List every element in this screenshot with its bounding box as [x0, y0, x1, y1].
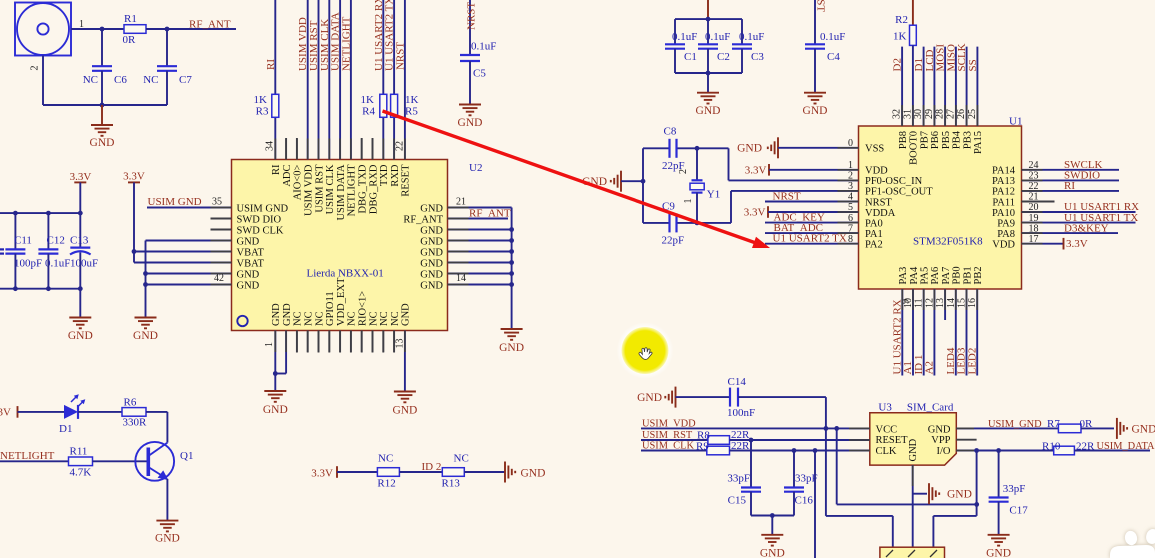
junction C17 top — [996, 448, 1001, 453]
junction gnd row8 — [143, 282, 148, 287]
resistor R3 — [254, 94, 279, 118]
net label RF_ANT right — [469, 208, 511, 220]
junction C12 top — [46, 211, 51, 216]
svg-text:C3: C3 — [751, 51, 764, 63]
wire C1 bottom — [674, 49, 676, 73]
wire join to ground — [771, 516, 773, 535]
svg-text:R3: R3 — [256, 106, 269, 118]
svg-text:GND: GND — [237, 236, 260, 247]
node junction at C6 top — [100, 27, 105, 32]
net label U1 USART2 TX vertical — [384, 0, 396, 71]
svg-text:VSS: VSS — [865, 144, 884, 155]
svg-text:C1: C1 — [684, 51, 697, 63]
svg-text:PA7: PA7 — [941, 267, 952, 285]
ground left of C14 — [637, 387, 675, 408]
crystal Y1 — [678, 169, 720, 204]
svg-text:GND: GND — [737, 143, 762, 155]
svg-text:GND: GND — [420, 203, 443, 214]
net label RI vertical — [265, 59, 277, 70]
svg-text:NC: NC — [347, 311, 358, 326]
svg-text:GND: GND — [803, 105, 828, 117]
junction VDD branch A — [824, 426, 829, 431]
svg-text:0.1uF: 0.1uF — [705, 31, 730, 43]
resistor R4 — [361, 94, 387, 118]
U3 pin stub VPP — [956, 439, 976, 441]
svg-text:C6: C6 — [114, 74, 127, 86]
wire cap bank bottom rail — [0, 288, 80, 290]
svg-text:32: 32 — [892, 109, 903, 119]
svg-text:USIM DATA: USIM DATA — [336, 164, 347, 220]
svg-text:R13: R13 — [442, 478, 461, 490]
svg-text:SWD CLK: SWD CLK — [237, 225, 284, 236]
power 3.3V VDD — [745, 164, 769, 177]
wire LED to R6 — [78, 411, 122, 413]
wire R2 to U1 — [912, 45, 914, 126]
wire R13 to ground — [464, 471, 505, 473]
svg-text:R5: R5 — [405, 106, 418, 118]
wire CLK branch down — [814, 451, 816, 558]
wire R10 to USIM DATA — [1074, 450, 1150, 452]
wire C15 bottom — [750, 492, 752, 516]
capacitor C12 — [38, 235, 70, 270]
wire 3.3V to LED — [18, 411, 65, 413]
svg-text:D2: D2 — [892, 58, 904, 71]
svg-text:STM32F051K8: STM32F051K8 — [913, 236, 983, 248]
ground U2 bottom right — [392, 392, 417, 417]
wire C17 drop — [998, 451, 1000, 498]
svg-text:3.3V: 3.3V — [123, 171, 145, 183]
ground right of U3 pin — [929, 483, 972, 504]
svg-text:PF0-OSC_IN: PF0-OSC_IN — [865, 176, 923, 187]
ground right of R7 — [1117, 418, 1155, 439]
net label LED4 vertical — [945, 347, 957, 374]
resistor R12 — [377, 468, 399, 490]
pin number 1 — [264, 342, 275, 347]
svg-text:1K: 1K — [254, 94, 268, 106]
wire C16 drop — [793, 451, 795, 488]
wire U1 bottom col 14 — [955, 289, 957, 376]
svg-text:R2: R2 — [895, 14, 908, 26]
svg-text:PA14: PA14 — [992, 166, 1016, 177]
svg-text:AIO<0>: AIO<0> — [293, 164, 304, 200]
svg-text:22: 22 — [394, 141, 405, 151]
ground U2 left — [133, 318, 158, 343]
svg-text:RIO<1>: RIO<1> — [358, 291, 369, 326]
capacitor C5 — [460, 41, 496, 80]
svg-text:PB5: PB5 — [941, 131, 952, 149]
svg-text:PA15: PA15 — [973, 131, 984, 154]
svg-text:RF_ANT: RF_ANT — [403, 214, 443, 225]
svg-text:NC: NC — [83, 74, 98, 86]
net label LCD vertical — [924, 49, 936, 71]
svg-text:33pF: 33pF — [727, 473, 750, 485]
wire C12 top — [47, 213, 49, 249]
svg-text:3.3V: 3.3V — [0, 407, 11, 419]
junction right gnd row4 — [509, 238, 514, 243]
wire VDDA — [768, 211, 859, 213]
svg-text:USIM GND: USIM GND — [237, 203, 289, 214]
resistor R11 — [69, 446, 93, 479]
connector U3 SIM Card — [870, 413, 957, 465]
junction CLK branch — [813, 448, 818, 453]
svg-text:RESET: RESET — [876, 435, 909, 446]
designator U1 — [1009, 116, 1022, 128]
wire GND right row8 — [448, 284, 512, 286]
net label D2 vertical — [892, 58, 904, 71]
svg-text:0.1uF: 0.1uF — [471, 41, 496, 53]
svg-text:C13: C13 — [70, 235, 89, 247]
wire C13 bottom — [79, 253, 81, 289]
svg-text:26: 26 — [956, 109, 967, 119]
svg-text:ID 2: ID 2 — [422, 461, 442, 473]
svg-text:1K: 1K — [405, 94, 419, 106]
ground right of R13 — [505, 462, 545, 483]
wire U1 bottom col 16 — [976, 289, 978, 376]
U2 pin stub SWD DIO — [211, 218, 232, 220]
svg-text:CLK: CLK — [876, 446, 897, 457]
svg-text:C14: C14 — [728, 376, 747, 388]
capacitor C8 — [662, 126, 685, 173]
svg-text:USIM_DATA: USIM_DATA — [1097, 441, 1155, 452]
svg-text:R1: R1 — [124, 13, 137, 25]
net label SWCLK — [1064, 159, 1103, 171]
svg-text:GPIO11: GPIO11 — [325, 291, 336, 326]
wire USIM GND to U2 — [147, 207, 232, 209]
wire C7 bottom — [166, 71, 168, 105]
net label LED2 vertical — [966, 348, 978, 375]
net label NETLIGHT vertical — [340, 16, 352, 71]
wire VBAT row1 — [134, 251, 232, 253]
wire NETLIGHT column — [350, 0, 352, 160]
svg-text:NRST: NRST — [815, 0, 827, 12]
svg-text:A2: A2 — [924, 361, 936, 374]
svg-text:VDD_EXT: VDD_EXT — [336, 277, 347, 326]
svg-text:PA3: PA3 — [898, 267, 909, 285]
capacitor C11 — [5, 235, 42, 270]
wire VDD branch B across — [837, 428, 977, 504]
svg-text:SS: SS — [967, 59, 979, 71]
svg-text:I/O: I/O — [937, 446, 951, 457]
wire 3.3V down to VBAT — [133, 182, 135, 262]
svg-text:PB4: PB4 — [952, 130, 963, 149]
wire VBAT row2 — [134, 262, 232, 264]
svg-text:R4: R4 — [362, 106, 375, 118]
wire PF0 to crystal — [729, 148, 859, 180]
capacitor C13 polarized — [70, 235, 98, 270]
svg-text:C16: C16 — [795, 495, 814, 507]
svg-text:100pF: 100pF — [14, 258, 42, 270]
net label LED3 vertical — [956, 347, 968, 374]
capacitor edge partial — [0, 249, 4, 269]
svg-text:R12: R12 — [377, 478, 395, 490]
wire crystal bottom rail — [643, 222, 731, 224]
power 3.3V LED — [0, 406, 18, 418]
wire U1 right row 4 — [1022, 201, 1055, 203]
pin number 35 — [212, 197, 222, 208]
resistor R7 — [1047, 418, 1093, 433]
svg-text:NC: NC — [314, 311, 325, 326]
wire C5 to ground — [469, 61, 471, 105]
wire power feed above C2 — [707, 0, 709, 19]
svg-text:13: 13 — [395, 339, 406, 349]
svg-text:1K: 1K — [361, 94, 375, 106]
wire NRST to C5 — [469, 0, 471, 55]
svg-text:2: 2 — [678, 169, 689, 174]
svg-text:Y1: Y1 — [707, 189, 720, 201]
ground below C13 — [68, 318, 93, 343]
svg-text:1K: 1K — [893, 31, 907, 43]
wire pin2 to pin1 join — [275, 373, 286, 375]
svg-text:NC: NC — [454, 453, 469, 465]
svg-text:PA6: PA6 — [930, 267, 941, 285]
antenna pin 2 label — [30, 66, 41, 71]
pin number 13 — [395, 339, 406, 349]
label NC R12 — [378, 453, 393, 465]
net label NRST vertical — [394, 42, 406, 70]
wire C2 bottom — [707, 49, 709, 73]
net label ID 1 vertical — [913, 355, 925, 375]
wire antenna pin1 to R1 node — [71, 28, 124, 30]
wire U3 gnd to symbol — [913, 493, 927, 495]
svg-text:100uF: 100uF — [70, 258, 98, 270]
wire GND row7 — [146, 273, 232, 275]
svg-text:Q1: Q1 — [180, 450, 193, 462]
net label ADC KEY — [774, 212, 825, 224]
svg-text:DBG_TXD: DBG_TXD — [358, 164, 369, 213]
wire U3 I/O row — [956, 450, 1053, 452]
svg-text:USIM RST: USIM RST — [314, 164, 325, 213]
svg-text:NC: NC — [390, 311, 401, 326]
svg-text:RI: RI — [265, 59, 277, 70]
wire GND right row5 — [448, 251, 512, 253]
svg-text:PF1-OSC_OUT: PF1-OSC_OUT — [865, 187, 933, 198]
svg-text:GND: GND — [133, 330, 158, 342]
wire C16 bottom — [793, 492, 795, 516]
svg-text:PA5: PA5 — [920, 267, 931, 285]
label NC R13 — [454, 453, 469, 465]
svg-text:PA8: PA8 — [997, 229, 1015, 240]
net label RI — [1064, 180, 1075, 192]
net label NRST U1 — [773, 191, 801, 203]
wire USIM CLK to R9 — [641, 450, 707, 452]
ground Q1 — [155, 521, 180, 545]
wire Y1 bottom — [696, 193, 698, 223]
svg-text:NRST: NRST — [394, 42, 406, 70]
wire Y1 top — [696, 148, 698, 180]
wire RI column — [274, 0, 276, 160]
svg-text:GND: GND — [521, 468, 546, 480]
svg-text:3.3V: 3.3V — [311, 468, 333, 480]
svg-text:GND: GND — [68, 330, 93, 342]
pin number 22 — [394, 141, 405, 151]
svg-text:PA2: PA2 — [865, 240, 883, 251]
junction IO-branch cross — [974, 502, 979, 507]
svg-text:GND: GND — [908, 438, 919, 461]
wire MISO column — [955, 47, 957, 126]
net label USIM DATA vertical — [330, 12, 342, 71]
svg-text:PB3: PB3 — [962, 131, 973, 149]
svg-text:RI: RI — [271, 164, 282, 175]
svg-text:28: 28 — [935, 109, 946, 119]
svg-text:0.1uF: 0.1uF — [672, 31, 697, 43]
wire LCD column — [933, 47, 935, 126]
U2 bottom pin stubs — [297, 331, 394, 353]
svg-text:42: 42 — [214, 273, 224, 284]
designator U3 — [878, 402, 892, 414]
wire C15 C16 join — [751, 515, 794, 517]
wire USIM RST to R8 — [641, 439, 708, 441]
junction C15 top — [749, 438, 754, 443]
net label USIM CLK vertical — [319, 19, 331, 71]
net label A1 vertical — [902, 361, 914, 374]
wire RESET column — [404, 0, 406, 160]
pin number 21 — [456, 197, 466, 208]
U1 bottom pin numbers — [901, 298, 979, 308]
pin number 42 — [214, 273, 224, 284]
svg-text:VDD: VDD — [865, 166, 888, 177]
svg-text:GND: GND — [420, 258, 443, 269]
net label BAT ADC — [774, 222, 824, 234]
wire R1 to RF_ANT — [146, 28, 236, 30]
wire U1 right row 8 — [1022, 243, 1064, 245]
svg-text:C2: C2 — [717, 51, 730, 63]
capacitor C9 — [662, 201, 685, 247]
net label NRST at C4 vertical — [815, 0, 827, 12]
transistor Q1 — [135, 442, 193, 481]
net label USIM DATA — [1097, 441, 1155, 452]
junction right gnd row8 — [509, 282, 514, 287]
svg-text:14: 14 — [456, 273, 466, 284]
svg-text:PA9: PA9 — [997, 218, 1015, 229]
svg-text:GND: GND — [90, 137, 115, 149]
net label SS vertical — [967, 59, 979, 71]
cursor white hand corner — [1110, 528, 1155, 558]
svg-text:RESET: RESET — [401, 164, 412, 197]
svg-text:LED2: LED2 — [966, 348, 978, 375]
ground left of crystal — [582, 171, 643, 192]
cursor highlight — [617, 322, 674, 379]
wire R12 to R13 with ID 2 — [399, 471, 442, 473]
svg-text:GND: GND — [263, 404, 288, 416]
svg-text:GND: GND — [155, 533, 180, 545]
wire GND row4 — [146, 240, 232, 242]
wire crystal top rail — [643, 147, 729, 149]
wire USIM VDD row — [641, 427, 870, 429]
wire C14 to VDD branch — [738, 396, 826, 398]
wire PA2 — [765, 243, 859, 245]
ground below C5 — [458, 105, 483, 130]
wire RXD column — [393, 0, 395, 160]
power 3.3V ID row — [311, 466, 337, 479]
svg-text:PA12: PA12 — [992, 187, 1015, 198]
label SIM Card — [907, 402, 954, 414]
wire GND right row7 — [448, 273, 512, 275]
svg-text:R9: R9 — [696, 441, 709, 453]
junction right gnd row7 — [509, 271, 514, 276]
svg-text:NC: NC — [304, 311, 315, 326]
wire C6 bottom — [101, 71, 103, 105]
wire USIM CLK column — [328, 0, 330, 160]
svg-text:NETLIGHT: NETLIGHT — [347, 164, 358, 216]
wire U1 right row 5 — [1022, 211, 1136, 213]
net label NETLIGHT — [0, 450, 55, 462]
net label SCLK vertical — [956, 43, 968, 71]
wire power feed above R2 — [912, 0, 914, 25]
svg-text:TXD: TXD — [379, 164, 390, 186]
svg-text:C5: C5 — [473, 68, 486, 80]
svg-text:GND: GND — [637, 392, 662, 404]
wire cap bank top rail — [0, 212, 80, 214]
wire R11 to Q1 base — [93, 460, 149, 462]
svg-text:3.3V: 3.3V — [745, 165, 767, 177]
svg-text:GND: GND — [760, 548, 785, 558]
wire C6 top drop — [101, 29, 103, 66]
svg-text:USIM_GND: USIM_GND — [988, 419, 1042, 430]
wire U1 right row 2 — [1022, 179, 1120, 181]
svg-text:C12: C12 — [47, 235, 65, 247]
capacitor C1 — [665, 31, 697, 63]
wire NRST to C4 — [814, 0, 816, 44]
svg-text:C15: C15 — [728, 495, 747, 507]
capacitor C4 — [805, 31, 845, 63]
junction right gnd row6 — [509, 260, 514, 265]
svg-text:GND: GND — [499, 342, 524, 354]
wire NETLIGHT to R11 — [0, 460, 69, 462]
wire down to ground pin1 — [274, 374, 276, 392]
svg-text:RI: RI — [1064, 180, 1075, 192]
wire I/O branch down to SIM socket — [933, 451, 976, 548]
wire PA0 — [765, 222, 859, 224]
ground below C2 — [696, 93, 721, 117]
wire D2 column — [901, 47, 903, 126]
connector SIM socket bottom — [880, 547, 945, 558]
svg-text:R11: R11 — [70, 446, 88, 458]
junction right gnd row5 — [509, 249, 514, 254]
junction C11 top — [13, 211, 18, 216]
svg-text:PB2: PB2 — [973, 266, 984, 284]
net label SWDIO — [1064, 170, 1100, 182]
module U2 Lierda NBXX-01 — [232, 160, 448, 331]
wire U3 GND to R7 — [956, 427, 1058, 429]
svg-text:C11: C11 — [14, 235, 32, 247]
ground below C15 C16 — [760, 535, 785, 558]
svg-text:GND: GND — [271, 303, 282, 326]
svg-text:NC: NC — [293, 311, 304, 326]
wire GND row1 right — [448, 207, 512, 209]
svg-text:U1 USART2 TX: U1 USART2 TX — [773, 233, 847, 245]
svg-text:GND: GND — [928, 424, 951, 435]
svg-text:1: 1 — [683, 199, 694, 204]
svg-text:4.7K: 4.7K — [70, 467, 92, 479]
svg-text:31: 31 — [902, 109, 913, 119]
svg-text:PB0: PB0 — [952, 266, 963, 284]
wire C13 to ground — [79, 289, 81, 318]
svg-text:PA10: PA10 — [992, 208, 1015, 219]
pin number 34 — [265, 141, 276, 151]
svg-text:3.3V: 3.3V — [70, 171, 92, 183]
svg-text:NETLIGHT: NETLIGHT — [0, 450, 55, 462]
wire C15 drop — [750, 440, 752, 488]
capacitor C16 — [784, 473, 818, 507]
U2 pin stub SWD CLK — [211, 229, 232, 231]
svg-text:GND: GND — [420, 225, 443, 236]
wire gnd to C14 — [676, 396, 731, 398]
svg-text:NC: NC — [143, 74, 158, 86]
wire U1 right row 1 — [1022, 169, 1120, 171]
wire C3 bottom — [741, 49, 743, 73]
wire 3.3V stem to rail — [79, 182, 81, 213]
net label A2 vertical — [924, 361, 936, 374]
